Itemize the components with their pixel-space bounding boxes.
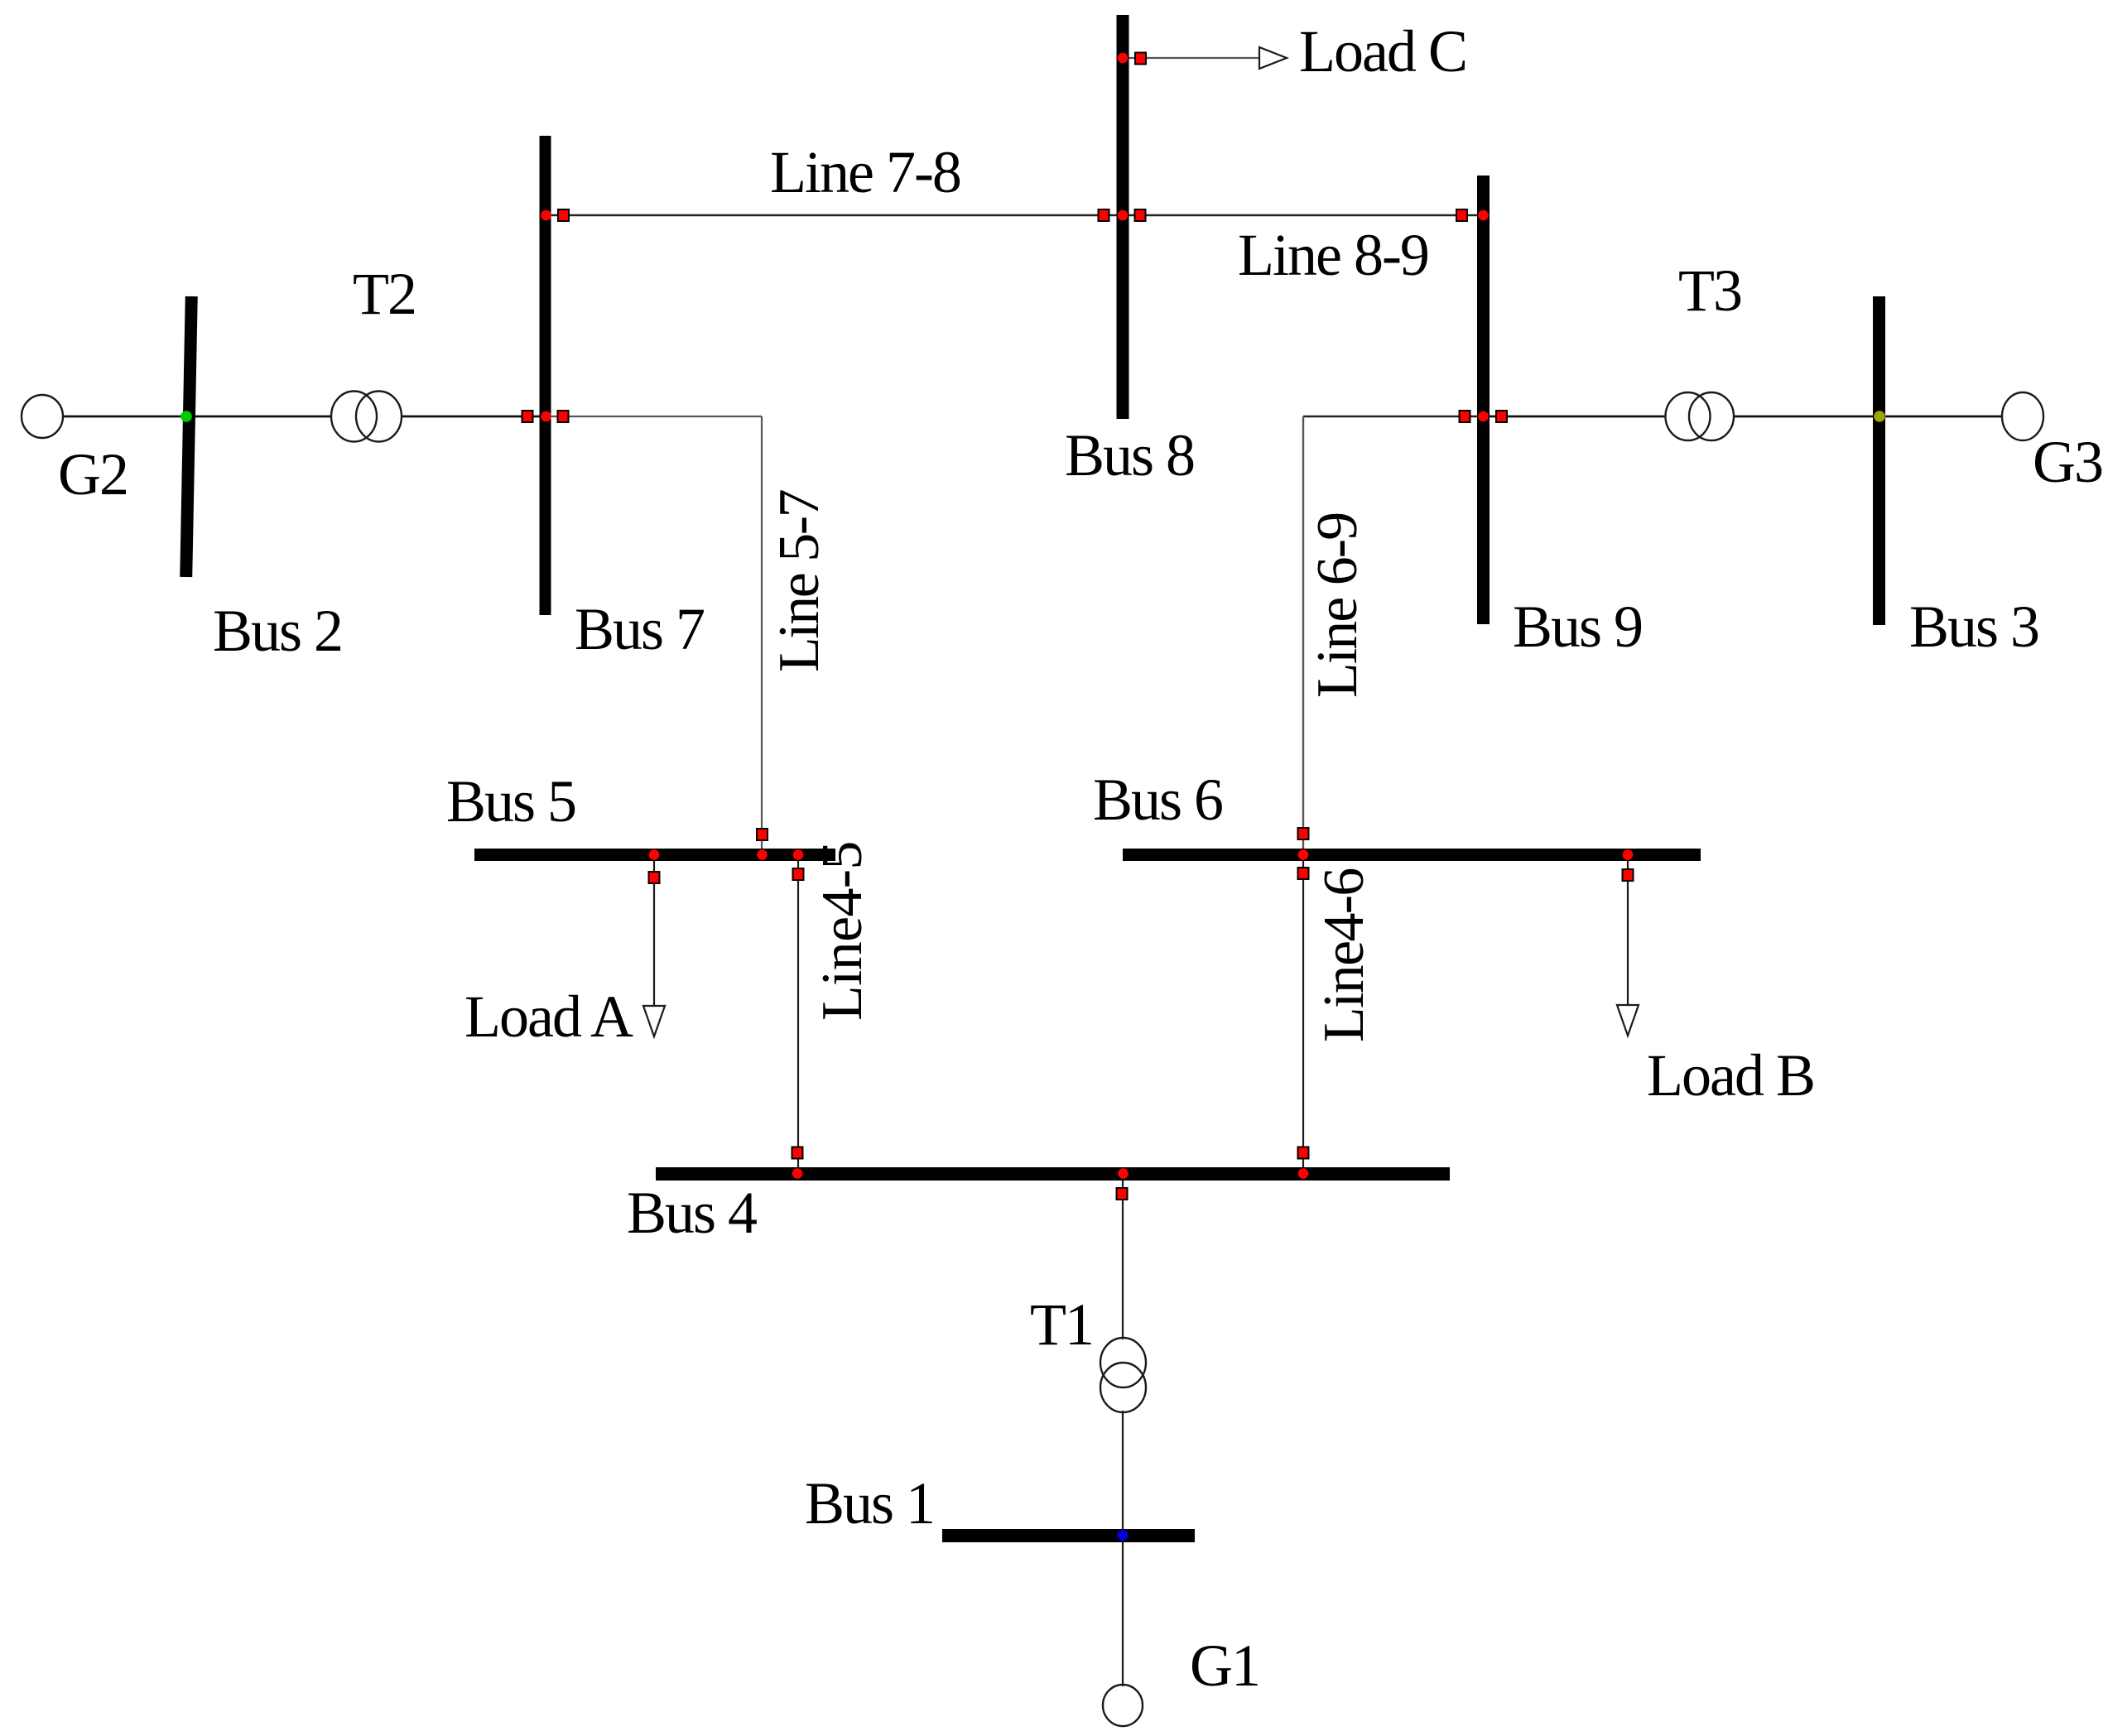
junction dot Line4-6 on Bus 4	[1298, 1168, 1309, 1179]
generator G1	[1103, 1685, 1143, 1726]
svg-text:Line 7-8: Line 7-8	[770, 139, 960, 205]
wire Load C from Bus 8	[1123, 57, 1259, 59]
svg-text:T2: T2	[353, 261, 416, 327]
node dot T3 at Bus 3 (olive)	[1874, 411, 1885, 422]
svg-text:Bus 1: Bus 1	[805, 1470, 934, 1536]
junction dot T2 wire at Bus 7	[541, 411, 551, 422]
junction dot Line 7-8 at Bus 7	[541, 210, 551, 221]
junction dot at Bus 9 main wire	[1478, 411, 1489, 422]
junction square Line 7-8 right of Bus 7	[558, 209, 569, 221]
bus 3 bar	[1873, 296, 1885, 625]
svg-text:Bus 6: Bus 6	[1093, 767, 1222, 833]
svg-text:Bus 5: Bus 5	[446, 768, 575, 834]
node dot generator G2 at Bus 2 (green)	[180, 411, 192, 422]
wire Bus 2 to T2	[189, 416, 332, 418]
junction square Line 6-9 left of Bus 9	[1460, 411, 1470, 422]
junction square Line 5-7 above Bus 5	[757, 829, 768, 840]
svg-text:Bus 9: Bus 9	[1513, 594, 1642, 660]
wire Bus 9 to T3	[1483, 416, 1666, 418]
svg-text:Line4-6: Line4-6	[1312, 868, 1376, 1042]
svg-text:Bus 3: Bus 3	[1909, 594, 2038, 660]
wire T3 to Bus 3	[1734, 416, 1879, 418]
junction dot Line 6-9 on Bus 6	[1298, 849, 1309, 860]
wire Load B from Bus 6	[1627, 861, 1629, 1005]
arrowhead Load A	[643, 1006, 665, 1036]
bus 4 bar	[656, 1167, 1450, 1181]
wire T1 to Bus 1	[1122, 1411, 1124, 1530]
svg-text:Bus 2: Bus 2	[213, 598, 342, 664]
wire Bus 4 to T1	[1122, 1181, 1124, 1339]
svg-text:G2: G2	[58, 441, 128, 507]
junction dot T1 on Bus 4	[1118, 1168, 1129, 1179]
wire Line4-6 from Bus 6 down to Bus 4	[1302, 861, 1304, 1167]
junction dot Load A on Bus 5	[649, 849, 660, 860]
transformer T3	[1666, 392, 1735, 440]
junction dot Line4-5 on Bus 4	[792, 1168, 803, 1179]
arrowhead Load C	[1259, 47, 1287, 69]
wire Line 6-9 vertical down to Bus 6	[1302, 416, 1304, 849]
svg-text:Load C: Load C	[1299, 18, 1466, 84]
transformer T2	[331, 392, 402, 442]
wire Line 5-7 vertical down to Bus 5	[761, 416, 763, 849]
svg-text:T1: T1	[1030, 1291, 1093, 1358]
arrowhead Load B	[1617, 1005, 1639, 1036]
svg-text:Load A: Load A	[464, 983, 633, 1050]
junction square Line4-6 above Bus 4	[1298, 1147, 1309, 1159]
junction square Line 8-9 left of Bus 9	[1456, 209, 1467, 221]
svg-text:Bus 8: Bus 8	[1065, 422, 1194, 488]
wire Line 7-8	[546, 214, 1123, 217]
bus 2 bar	[180, 296, 198, 577]
bus 7 bar	[540, 136, 551, 615]
wire Line4-5 from Bus 5 down to Bus 4	[797, 861, 799, 1167]
generator G3	[2002, 392, 2043, 440]
junction square Line4-5 below Bus 5	[793, 868, 804, 880]
wire Bus 3 to G3	[1879, 416, 2002, 418]
junction dot Line 8-9 at Bus 9	[1478, 210, 1489, 221]
wire Line 5-7 horizontal from Bus 7	[545, 416, 762, 417]
junction square T3 right of Bus 9	[1496, 411, 1507, 422]
junction square Load B below Bus 6	[1623, 869, 1634, 881]
junction square Line 6-9 above Bus 6	[1298, 828, 1309, 839]
wire Bus 1 to G1	[1122, 1541, 1124, 1686]
bus 5 bar	[474, 849, 835, 861]
junction square T1 below Bus 4	[1117, 1188, 1128, 1200]
junction dot Load C on Bus 8	[1118, 53, 1129, 64]
junction square Line4-5 above Bus 4	[792, 1147, 803, 1159]
svg-text:Line 8-9: Line 8-9	[1238, 222, 1428, 288]
junction square Line 5-7 right of Bus 7	[558, 411, 569, 422]
svg-text:Load B: Load B	[1647, 1042, 1814, 1108]
svg-text:G3: G3	[2033, 429, 2102, 495]
junction dot Line4-5 on Bus 5	[793, 849, 804, 860]
svg-text:Bus 4: Bus 4	[627, 1180, 757, 1246]
bus 9 bar	[1477, 176, 1490, 624]
svg-text:Line 5-7: Line 5-7	[768, 490, 831, 672]
junction dot Line 5-7 on Bus 5	[757, 849, 768, 860]
junction square Line 8-9 right of Bus 8	[1135, 209, 1146, 221]
wire Line 8-9	[1123, 214, 1483, 217]
junction square Line4-6 below Bus 6	[1298, 868, 1309, 879]
wire T2 to Bus 7	[401, 416, 545, 418]
junction square Line 7-8 left of Bus 8	[1099, 209, 1109, 221]
wire Load A from Bus 5	[653, 861, 655, 1006]
svg-text:Line 6-9: Line 6-9	[1306, 513, 1369, 698]
bus 8 bar	[1117, 15, 1129, 419]
junction dot Line 7-8 at Bus 8	[1118, 210, 1129, 221]
bus 6 bar	[1123, 849, 1701, 861]
wire Line 6-9 horizontal	[1303, 416, 1483, 418]
junction square Load A below Bus 5	[649, 872, 660, 883]
svg-text:T3: T3	[1678, 257, 1741, 324]
transformer T1	[1100, 1338, 1146, 1412]
bus 1 bar	[942, 1529, 1195, 1542]
junction dot Load B on Bus 6	[1623, 849, 1634, 860]
svg-text:Bus 7: Bus 7	[575, 596, 704, 662]
wire G2 to Bus 2	[63, 416, 189, 418]
generator G2	[22, 395, 63, 438]
svg-text:Line4-5: Line4-5	[811, 841, 874, 1021]
node dot T1 at Bus 1 (blue)	[1118, 1530, 1129, 1541]
svg-text:G1: G1	[1190, 1633, 1259, 1699]
junction square Load C at Bus 8	[1135, 53, 1146, 65]
junction square T2 left of Bus 7	[522, 411, 533, 422]
